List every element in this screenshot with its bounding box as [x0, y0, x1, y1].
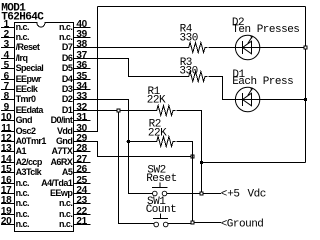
wire pin 24 stub right — [74, 193, 91, 195]
svg-text:+5: +5 — [227, 189, 239, 201]
wire pin 27 stub right — [74, 162, 91, 164]
svg-text:A7TX: A7TX — [51, 146, 72, 156]
svg-text:A4/Tda1: A4/Tda1 — [41, 178, 73, 188]
svg-text:n.c.: n.c. — [59, 22, 72, 32]
svg-text:EEwp: EEwp — [50, 188, 73, 198]
svg-text:D6: D6 — [62, 53, 73, 63]
svg-text:38: 38 — [76, 39, 87, 50]
wire pin 39 stub right — [74, 37, 91, 39]
svg-text:26: 26 — [76, 164, 87, 175]
svg-text:36: 36 — [76, 60, 87, 71]
wire pin 15 stub left — [1, 172, 15, 174]
svg-text:31: 31 — [76, 112, 87, 123]
wire pin 1 stub left — [1, 27, 15, 29]
resistor R3 — [187, 72, 208, 82]
wire pin 28 stub right — [74, 151, 91, 153]
wire pin 7 stub left — [1, 89, 15, 91]
wire pin 40 stub right — [74, 27, 91, 29]
wire pin 4 stub left — [1, 58, 15, 60]
svg-text:D3: D3 — [62, 84, 73, 94]
wire pin 34 stub right — [74, 89, 91, 91]
wire pin 33 D2-line right then down to SW2 — [74, 100, 153, 194]
wire pin 19 stub left — [1, 214, 15, 216]
wire pin 2 stub left — [1, 37, 15, 39]
wire pin 25 stub right — [74, 183, 91, 185]
svg-text:20: 20 — [1, 216, 12, 227]
wire pin 29 Gnd right, down, right to ground vertical — [74, 142, 193, 157]
wire R4 to LED D2 — [209, 47, 306, 49]
svg-text:Vdd: Vdd — [57, 126, 72, 136]
svg-text:D0/int: D0/int — [51, 115, 73, 125]
svg-text:13: 13 — [1, 143, 12, 154]
svg-text:EEclk: EEclk — [16, 84, 39, 94]
wire R2 left segment — [129, 141, 155, 143]
svg-text:n.c.: n.c. — [59, 219, 72, 229]
svg-text:A0Tmr1: A0Tmr1 — [16, 136, 47, 146]
svg-text:/Reset: /Reset — [16, 42, 40, 52]
svg-text:A1: A1 — [16, 146, 27, 156]
wire pin 8 stub left — [1, 99, 15, 101]
svg-text:n.c.: n.c. — [59, 209, 72, 219]
wire pin 22 stub right — [74, 214, 91, 216]
wire pin 16 stub left — [1, 183, 15, 185]
svg-text:A5: A5 — [62, 167, 73, 177]
wire pin 37 D6 right, down, to R3 — [74, 59, 187, 77]
wire pin 6 stub left — [1, 79, 15, 81]
wire R2 right then down to ground point — [177, 142, 193, 222]
wire Vdd pin 30 up to top rail — [74, 7, 98, 132]
junction pin 32 branch (open square) — [117, 109, 120, 112]
svg-text:A2/ccp: A2/ccp — [16, 157, 43, 167]
junction dot D2-line to R2 wire — [127, 140, 131, 144]
switch SW1 Count pushbutton contacts — [154, 222, 168, 227]
SW1 actuator stem — [160, 214, 162, 219]
wire pin 31 stub right — [74, 120, 91, 122]
wire R1 right then down (+5 vertical) — [177, 111, 202, 194]
wire through LED D1 to bus — [235, 99, 305, 101]
svg-text:D1: D1 — [62, 105, 73, 115]
svg-text:Osc2: Osc2 — [16, 126, 36, 136]
resistor R4 — [187, 43, 208, 53]
svg-text:Ten Presses: Ten Presses — [232, 24, 299, 36]
svg-text:T62H64C: T62H64C — [1, 11, 44, 23]
svg-text:Each Press: Each Press — [232, 76, 293, 88]
wire pin 38 D7 to R4 — [74, 47, 187, 49]
svg-text:Vdc: Vdc — [248, 189, 266, 201]
svg-text:Count: Count — [146, 204, 177, 216]
wire pin 9 stub left — [1, 110, 15, 112]
svg-text:D2: D2 — [62, 94, 73, 104]
svg-text:n.c.: n.c. — [16, 219, 29, 229]
wire pin 36 stub right — [74, 68, 91, 70]
wire D1-line down to SW1 — [119, 112, 154, 224]
wire SW1 right to ground point — [168, 223, 192, 225]
wire pin 23 stub right — [74, 203, 91, 205]
node +5V top rail wire — [98, 6, 306, 8]
wire pin 11 stub left — [1, 131, 15, 133]
svg-text:33: 33 — [76, 91, 87, 102]
wire pin 26 stub right — [74, 172, 91, 174]
svg-text:23: 23 — [76, 195, 87, 206]
svg-text:n.c.: n.c. — [16, 22, 29, 32]
svg-text:8: 8 — [4, 91, 10, 102]
wire pin 21 stub right — [74, 224, 91, 226]
resistor R1 — [155, 106, 176, 116]
svg-text:A6RX: A6RX — [50, 157, 72, 167]
junction Ground connector point (open square) — [191, 221, 194, 224]
wire pin 17 stub left — [1, 193, 15, 195]
wire pin 35 stub right — [74, 79, 91, 81]
svg-text:22K: 22K — [147, 94, 166, 106]
wire +5V right bus — [305, 7, 307, 163]
wire pin 32 D1-line to R1 — [74, 110, 155, 112]
LED D2 symbol — [235, 35, 259, 59]
svg-text:Tmr0: Tmr0 — [16, 94, 36, 104]
SW2 actuator bar — [152, 187, 168, 189]
junction +5 connector point (open square) — [200, 192, 203, 195]
svg-text:A3Tclk: A3Tclk — [16, 167, 43, 177]
svg-text:Gnd: Gnd — [16, 115, 32, 125]
svg-text:330: 330 — [180, 33, 198, 45]
svg-text:n.c.: n.c. — [59, 198, 72, 208]
svg-text:n.c.: n.c. — [16, 32, 29, 42]
svg-text:<: < — [221, 189, 227, 201]
wire pin 12 stub left — [1, 141, 15, 143]
svg-text:18: 18 — [1, 195, 12, 206]
junction +5 rail on R1 vertical (filled square) — [200, 161, 203, 164]
SW1 actuator bar — [153, 218, 168, 220]
wire R3 right, down, to LED D1 — [209, 77, 235, 100]
svg-text:D5: D5 — [62, 63, 73, 73]
svg-text:15: 15 — [1, 164, 12, 175]
junction Gnd wire to R2 vertical (open square) — [191, 155, 194, 158]
svg-text:330: 330 — [179, 66, 197, 78]
wire pin 3 stub left — [1, 47, 15, 49]
wire SW2 right to +5 point — [167, 193, 221, 195]
wire pin 20 stub left — [1, 224, 15, 226]
svg-text:/Irq: /Irq — [16, 53, 28, 63]
svg-text:n.c.: n.c. — [16, 178, 29, 188]
svg-text:Special: Special — [16, 63, 44, 73]
svg-text:EEpwr: EEpwr — [16, 74, 42, 84]
wire ground lead — [194, 222, 221, 224]
svg-text:n.c.: n.c. — [59, 32, 72, 42]
svg-text:EEdata: EEdata — [16, 105, 45, 115]
IC module MOD1 body outline with notch — [15, 23, 74, 232]
svg-text:n.c.: n.c. — [16, 188, 29, 198]
svg-text:n.c.: n.c. — [16, 198, 29, 208]
node +5V rail to bus bottom — [202, 162, 306, 164]
junction D2 wire to +5 bus (open square) — [304, 46, 307, 49]
svg-text:22K: 22K — [148, 127, 167, 139]
resistor R2 — [155, 137, 176, 147]
svg-text:D7: D7 — [62, 42, 73, 52]
wire pin 13 stub left — [1, 151, 15, 153]
svg-text:28: 28 — [76, 143, 87, 154]
svg-text:Reset: Reset — [146, 173, 177, 185]
wire pin 10 stub left — [1, 120, 15, 122]
svg-text:n.c.: n.c. — [16, 209, 29, 219]
junction D1 wire to +5 bus (filled square) — [304, 98, 307, 101]
wire pin 18 stub left — [1, 203, 15, 205]
svg-text:Ground: Ground — [227, 219, 264, 231]
svg-text:Gnd: Gnd — [56, 136, 72, 146]
SW2 actuator stem — [159, 183, 161, 188]
svg-text:3: 3 — [4, 39, 10, 50]
wire pin 5 stub left — [1, 68, 15, 70]
svg-text:10: 10 — [1, 112, 12, 123]
switch SW2 Reset pushbutton contacts — [153, 191, 167, 196]
wire pin 14 stub left — [1, 162, 15, 164]
svg-text:5: 5 — [4, 60, 10, 71]
svg-text:21: 21 — [76, 216, 87, 227]
LED D1 symbol — [235, 87, 259, 111]
svg-text:D4: D4 — [62, 74, 73, 84]
